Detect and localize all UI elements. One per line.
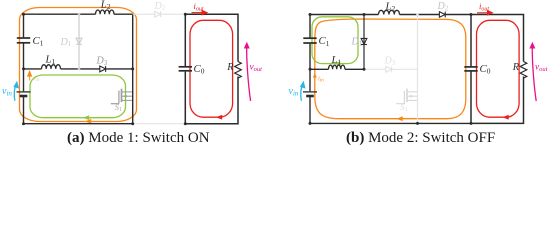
diode D2 (fig a, off - grey) [155, 11, 161, 17]
current loop i2 (green, lower compartment fig a) [30, 75, 126, 118]
current loop i1 (orange, main loop fig b) [315, 19, 466, 119]
svg-text:D3: D3 [384, 56, 396, 67]
wire fig-b middle rail (inactive part grey) [364, 68, 418, 70]
output loop box fig-a [185, 14, 238, 124]
junction: fig-a left / middle rail [22, 67, 25, 70]
junction: fig-a output box bottom-left [184, 122, 187, 125]
junction: fig-b output box bottom-left [470, 122, 473, 125]
junction: fig-b bottom-left node [309, 122, 312, 125]
svg-text:D3: D3 [96, 56, 108, 67]
svg-text:vin: vin [289, 86, 299, 97]
wire fig-b right (inactive grey) [417, 15, 419, 124]
svg-text:D2: D2 [437, 1, 449, 12]
svg-text:L2: L2 [100, 0, 111, 11]
svg-text:C1: C1 [33, 35, 44, 48]
junction: fig-b D1 branch top [363, 13, 366, 16]
output current arrow i_out (fig a) [192, 10, 208, 14]
wire link fig-a top (inactive grey) [133, 13, 186, 15]
junction: fig-a right / middle rail [131, 67, 134, 70]
current loop i2 (green, C1-L1-D1 loop fig b) [312, 17, 358, 64]
svg-text:C0: C0 [194, 63, 205, 76]
svg-text:C1: C1 [319, 35, 330, 48]
wire fig-a left (with gaps for C1 and source) [23, 14, 25, 124]
diode D3 (fig b, off - grey) [386, 66, 392, 72]
current loop i1 (orange, outer loop fig a) [20, 8, 137, 122]
input current arrow i_in (fig a, faded) [28, 71, 32, 80]
svg-text:iin: iin [318, 76, 324, 84]
inductor L2 (fig a) [96, 10, 115, 14]
resistor R (fig a) [235, 62, 242, 79]
svg-text:vout: vout [250, 63, 263, 73]
junction: fig-a bottom-right node [131, 122, 134, 125]
junction: fig-a output box top-left [184, 13, 187, 16]
v_out direction arrow (fig a) [245, 43, 251, 101]
wire fig-b left (gaps for C1 and source) [309, 15, 311, 124]
svg-text:R: R [512, 62, 520, 73]
junction: fig-b right rail bottom [416, 122, 419, 125]
arrow on orange loop bottom (fig a) [85, 119, 91, 124]
capacitor C1 (fig b) [303, 38, 316, 43]
input current arrow i_in (fig b) [313, 73, 317, 78]
diode D2 (fig b, conducting) [439, 12, 445, 18]
svg-text:D1: D1 [60, 37, 72, 48]
switch S1 (fig b, MOSFET off grey) [396, 89, 417, 104]
junction: fig-b right rail top (grey) [416, 13, 419, 16]
inductor L1 (fig a) [42, 65, 61, 69]
wire fig-a middle rail [24, 68, 133, 70]
arrow on red loop bottom (fig b) [502, 115, 508, 120]
current loop i3 (red, output loop fig a) [190, 20, 233, 117]
wire fig-a bottom [24, 123, 133, 125]
svg-text:R: R [226, 62, 234, 73]
svg-text:S1: S1 [115, 102, 123, 113]
wire fig-b middle rail (active part black) [310, 68, 364, 70]
arrow on S1 source lead (fig b) [409, 95, 413, 98]
diode D1 (fig a, off - grey) + wire [76, 14, 82, 69]
svg-text:(a) Mode 1: Switch ON: (a) Mode 1: Switch ON [67, 130, 210, 146]
inductor L1 (fig b) [329, 65, 345, 69]
diode D1 (fig b, conducting) + wire [361, 15, 367, 70]
svg-text:vin: vin [2, 86, 12, 97]
wire link fig-a bottom (inactive grey) [133, 123, 186, 125]
junction: fig-a bottom-left node [22, 122, 25, 125]
arrow on green loop bottom (fig b) [334, 61, 340, 66]
wire fig-b bottom (runs to output box) [310, 122, 471, 124]
source v_in (fig a battery) [17, 92, 31, 96]
capacitor C0 (fig a) [179, 67, 192, 71]
switch S1 (fig a, MOSFET symbol grey) [111, 89, 132, 104]
svg-text:L1: L1 [331, 54, 342, 67]
output current arrow i_out (fig b) [477, 11, 493, 15]
svg-text:C0: C0 [480, 63, 491, 76]
wire fig-b top (runs to output box through D2) [310, 14, 471, 16]
capacitor C0 (fig b) [464, 67, 477, 71]
v_in direction arrow (fig a, cyan) [14, 82, 18, 101]
junction: fig-b top-left node [309, 13, 312, 16]
arrow on orange loop bottom (fig b) [396, 116, 402, 121]
svg-text:D2: D2 [154, 1, 166, 12]
v_out direction arrow (fig b) [530, 43, 536, 101]
svg-text:S1: S1 [400, 102, 408, 113]
arrow on red loop bottom (fig a) [216, 115, 222, 120]
junction: fig-b left / middle rail [309, 68, 312, 71]
source v_in (fig b battery) [303, 92, 317, 96]
svg-text:L1: L1 [45, 54, 56, 67]
junction: fig-a D1 branch top (grey) [78, 13, 81, 16]
wire fig-a top [24, 13, 133, 15]
junction: fig-a D1 branch bottom (grey) [78, 68, 81, 71]
wire fig-a right [132, 14, 134, 124]
v_in direction arrow (fig b) [301, 82, 305, 101]
capacitor C1 (fig a) [17, 38, 30, 43]
resistor R (fig b) [520, 62, 527, 79]
svg-text:L2: L2 [385, 0, 396, 13]
diode D3 (fig a, conducting) [100, 66, 106, 72]
arrow on green loop bottom (fig a) [83, 115, 89, 120]
junction: fig-b D1 branch / middle rail [363, 68, 366, 71]
current loop i3 (red, output loop fig b) [477, 20, 520, 117]
inductor L2 (fig b) [379, 10, 400, 14]
svg-text:(b) Mode 2: Switch OFF: (b) Mode 2: Switch OFF [346, 130, 495, 146]
junction: fig-b output box top-left [470, 13, 473, 16]
junction: fig-a top-left node [22, 13, 25, 16]
output loop box fig-b [471, 15, 524, 124]
svg-text:vout: vout [535, 63, 548, 73]
arrow on S1 source lead (fig a) [123, 95, 127, 98]
